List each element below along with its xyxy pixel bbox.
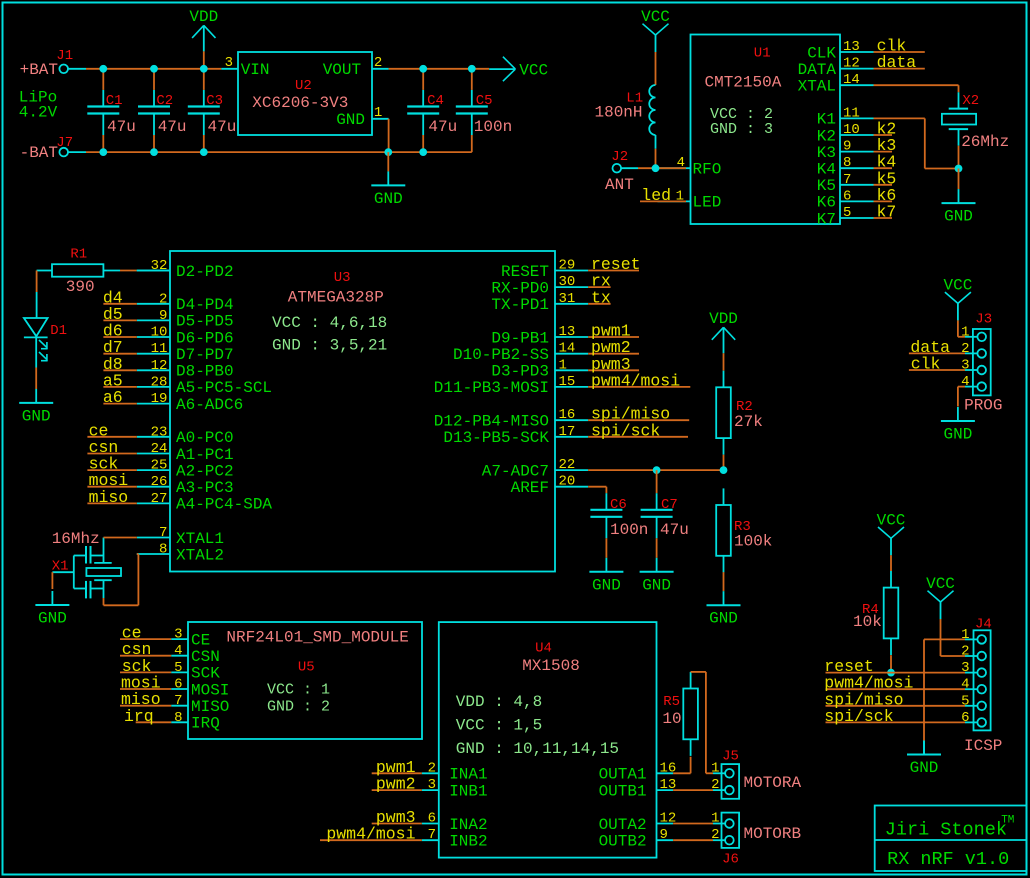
J5 pin 2 xyxy=(725,786,734,795)
svg-text:6: 6 xyxy=(428,811,436,827)
svg-text:ICSP: ICSP xyxy=(964,737,1002,755)
svg-text:13: 13 xyxy=(843,39,860,55)
wire R2 to junction xyxy=(723,455,725,470)
svg-text:VCC : 1: VCC : 1 xyxy=(267,682,330,699)
svg-text:U2: U2 xyxy=(295,78,312,94)
wire label csn xyxy=(120,655,171,657)
capacitor C6 xyxy=(590,509,622,511)
svg-text:11: 11 xyxy=(843,105,860,121)
svg-text:K4: K4 xyxy=(817,161,836,179)
svg-text:3: 3 xyxy=(225,55,233,71)
svg-text:3: 3 xyxy=(961,660,969,676)
connector J2 xyxy=(613,164,622,173)
J4 pin 4 xyxy=(977,685,986,694)
U4 pin 2 INA1 xyxy=(422,772,439,774)
capacitor C3 xyxy=(203,69,205,90)
junction C1 top xyxy=(99,65,107,73)
power VCC above J4 pin2 xyxy=(928,591,941,602)
ground below J3 xyxy=(957,407,959,421)
junction C1 bottom xyxy=(99,148,107,156)
svg-text:X2: X2 xyxy=(962,93,979,109)
power VDD above R2 xyxy=(712,327,724,340)
svg-text:pwm4/mosi: pwm4/mosi xyxy=(591,371,680,390)
junction C2 bottom xyxy=(150,148,158,156)
connector J4 box xyxy=(974,630,991,730)
svg-text:14: 14 xyxy=(843,72,860,88)
svg-text:GND : 3: GND : 3 xyxy=(710,121,773,138)
svg-text:4: 4 xyxy=(961,677,969,693)
wire label spi/sck J4 xyxy=(826,721,966,723)
svg-text:6: 6 xyxy=(174,677,182,693)
junction C4 top xyxy=(419,65,427,73)
svg-text:D9-PB1: D9-PB1 xyxy=(491,329,549,347)
svg-text:10k: 10k xyxy=(853,613,882,631)
wire label spi/sck xyxy=(588,436,688,438)
svg-text:TM: TM xyxy=(1001,815,1014,827)
U3 pin 9 D5-PD5 xyxy=(137,319,170,321)
power VCC above R4 xyxy=(878,527,891,538)
svg-text:data: data xyxy=(877,53,917,72)
svg-text:k7: k7 xyxy=(877,203,897,222)
U3 pin 17 D13-PB5-SCK xyxy=(555,436,588,438)
svg-text:D4-PD4: D4-PD4 xyxy=(176,296,234,314)
wire label a6 xyxy=(103,403,136,405)
svg-text:ATMEGA328P: ATMEGA328P xyxy=(288,289,384,307)
wire label sck xyxy=(87,469,136,471)
svg-text:GND: GND xyxy=(38,610,67,628)
wire label d5 xyxy=(103,319,136,321)
U3 pin 25 A2-PC2 xyxy=(137,469,170,471)
svg-text:K1: K1 xyxy=(817,111,836,129)
U3 pin 26 A3-PC3 xyxy=(137,486,170,488)
svg-text:27k: 27k xyxy=(734,413,763,431)
svg-text:VDD: VDD xyxy=(189,8,218,26)
U5 pin 8 IRQ xyxy=(171,721,188,723)
wire label d8 xyxy=(103,369,136,371)
svg-text:3: 3 xyxy=(174,627,182,643)
svg-text:180nH: 180nH xyxy=(595,103,643,121)
svg-text:C2: C2 xyxy=(156,93,173,109)
svg-text:C3: C3 xyxy=(206,93,223,109)
svg-text:J1: J1 xyxy=(56,48,73,64)
driver U4 box xyxy=(439,622,657,858)
ground below U2 xyxy=(387,152,389,171)
svg-text:47u: 47u xyxy=(107,118,136,136)
svg-text:A2-PC2: A2-PC2 xyxy=(176,462,234,480)
capacitor C7 xyxy=(656,470,658,493)
svg-text:CSN: CSN xyxy=(191,648,220,666)
svg-text:GND: GND xyxy=(374,190,403,208)
svg-text:4: 4 xyxy=(677,155,685,171)
svg-text:1: 1 xyxy=(961,324,969,340)
U4 pin 13 OUTB1 xyxy=(657,789,674,791)
svg-text:30: 30 xyxy=(559,274,576,290)
U3 pin 29 RESET xyxy=(555,270,588,272)
svg-text:spi/sck: spi/sck xyxy=(824,707,893,726)
U4 pin 9 OUTB2 xyxy=(657,839,674,841)
connector J5 box xyxy=(722,764,740,799)
connector J3 box xyxy=(973,329,991,395)
svg-text:U5: U5 xyxy=(298,659,315,675)
U4 pin 3 INB1 xyxy=(422,789,439,791)
svg-text:K6: K6 xyxy=(817,194,836,212)
svg-text:PROG: PROG xyxy=(964,397,1002,415)
svg-text:D10-PB2-SS: D10-PB2-SS xyxy=(453,346,549,364)
power VCC above J3 xyxy=(945,292,958,303)
svg-text:5: 5 xyxy=(843,205,851,221)
title block xyxy=(875,806,1027,872)
svg-text:VCC: VCC xyxy=(519,61,548,79)
ground below R3 xyxy=(723,591,725,605)
wire label d7 xyxy=(103,353,136,355)
wire R1 to D1 xyxy=(36,271,38,293)
wire +BAT rail xyxy=(68,68,86,70)
svg-text:CLK: CLK xyxy=(807,44,836,62)
svg-text:2: 2 xyxy=(961,644,969,660)
wire GND rail bottom xyxy=(68,151,86,153)
J5 pin 1 xyxy=(725,769,734,778)
junction C5 top xyxy=(468,65,476,73)
svg-text:2: 2 xyxy=(428,760,436,776)
net arrow VCC out xyxy=(489,68,515,70)
svg-text:D1: D1 xyxy=(50,323,67,339)
svg-text:3: 3 xyxy=(428,777,436,793)
junction C7 top xyxy=(653,466,661,474)
svg-text:D8-PB0: D8-PB0 xyxy=(176,363,234,381)
U5 pin 7 MISO xyxy=(171,705,188,707)
svg-text:NRF24L01_SMD_MODULE: NRF24L01_SMD_MODULE xyxy=(226,629,408,647)
resistor R5 xyxy=(683,689,698,740)
U3 pin 19 A6-ADC6 xyxy=(137,403,170,405)
U3 pin 10 D6-PD6 xyxy=(137,336,170,338)
svg-text:6: 6 xyxy=(843,188,851,204)
svg-text:RFO: RFO xyxy=(693,161,722,179)
svg-text:LED: LED xyxy=(693,194,722,212)
U1 pin 11 K1 xyxy=(840,117,874,119)
U1 pin 5 K7 xyxy=(840,217,874,219)
svg-text:VCC: VCC xyxy=(877,511,906,529)
svg-text:5: 5 xyxy=(961,693,969,709)
svg-text:2: 2 xyxy=(961,341,969,357)
svg-text:13: 13 xyxy=(559,324,576,340)
J3 pin 2 xyxy=(977,349,986,358)
svg-text:INB2: INB2 xyxy=(449,833,487,851)
svg-text:VDD : 4,8: VDD : 4,8 xyxy=(456,693,542,711)
svg-text:VCC : 4,6,18: VCC : 4,6,18 xyxy=(272,314,387,332)
svg-text:J6: J6 xyxy=(722,852,739,868)
ground below C6 xyxy=(605,558,607,572)
wire label pwm3 xyxy=(372,823,422,825)
U3 pin 23 A0-PC0 xyxy=(137,436,170,438)
svg-text:5: 5 xyxy=(174,660,182,676)
junction J2 L1 RFO xyxy=(652,164,660,172)
svg-text:47u: 47u xyxy=(158,118,187,136)
U5 pin 3 CE xyxy=(171,638,188,640)
U4 pin 6 INA2 xyxy=(422,823,439,825)
wire label clk xyxy=(874,51,925,53)
U1 pin 13 CLK xyxy=(840,51,874,53)
J4 pin 3 xyxy=(977,668,986,677)
svg-text:A0-PC0: A0-PC0 xyxy=(176,429,234,447)
svg-text:GND: GND xyxy=(592,576,621,594)
U4 pin 7 INB2 xyxy=(422,839,439,841)
svg-text:tx: tx xyxy=(591,288,611,307)
svg-text:RESET: RESET xyxy=(501,263,549,281)
svg-text:A5-PC5-SCL: A5-PC5-SCL xyxy=(176,379,272,397)
svg-text:MOTORB: MOTORB xyxy=(744,825,802,843)
svg-text:10: 10 xyxy=(843,122,860,138)
capacitor C4 xyxy=(422,69,424,90)
svg-text:MX1508: MX1508 xyxy=(522,657,580,675)
U4 pin 16 OUTA1 xyxy=(657,772,674,774)
svg-text:D12-PB4-MISO: D12-PB4-MISO xyxy=(434,413,549,431)
U3 pin 28 A5-PC5-SCL xyxy=(137,386,170,388)
junction C3 top xyxy=(200,65,208,73)
power VDD xyxy=(192,25,204,38)
svg-text:100k: 100k xyxy=(734,533,772,551)
svg-text:ANT: ANT xyxy=(605,176,634,194)
svg-text:D3-PD3: D3-PD3 xyxy=(491,363,549,381)
wire OUTA2 to J6 pin1 xyxy=(673,823,713,825)
svg-text:CE: CE xyxy=(191,631,210,649)
U1 pin 7 K5 xyxy=(840,184,874,186)
ground below X1 xyxy=(51,591,53,605)
U4 pin 12 OUTA2 xyxy=(657,823,674,825)
wire label clk J3 xyxy=(909,369,965,371)
svg-text:C6: C6 xyxy=(610,497,627,513)
U1 pin 9 K3 xyxy=(840,151,874,153)
svg-text:spi/sck: spi/sck xyxy=(591,421,660,440)
wire U2 GND to rail xyxy=(388,119,390,152)
inductor L1 xyxy=(649,85,655,135)
U3 pin 30 RX-PD0 xyxy=(555,286,588,288)
svg-text:19: 19 xyxy=(151,391,168,407)
svg-text:27: 27 xyxy=(151,491,168,507)
U5 pin 6 MOSI xyxy=(171,688,188,690)
ground below X2 xyxy=(958,189,960,203)
U1 pin 6 K6 xyxy=(840,200,874,202)
U1 pin 8 K4 xyxy=(840,167,874,169)
svg-text:J5: J5 xyxy=(722,749,739,765)
svg-text:C7: C7 xyxy=(661,497,678,513)
svg-text:VDD: VDD xyxy=(709,310,738,328)
svg-text:led: led xyxy=(641,186,671,205)
U3 pin 32 D2-PD2 xyxy=(137,270,170,272)
svg-text:MISO: MISO xyxy=(191,698,229,716)
wire label irq xyxy=(136,721,172,723)
wire label d4 xyxy=(103,303,136,305)
svg-text:VCC: VCC xyxy=(641,8,670,26)
crystal X2 xyxy=(958,92,960,108)
svg-text:MOTORA: MOTORA xyxy=(744,774,802,792)
U3 pin 12 D8-PB0 xyxy=(137,369,170,371)
wire label pwm3 xyxy=(588,369,639,371)
svg-text:CMT2150A: CMT2150A xyxy=(705,73,782,91)
capacitor C2 xyxy=(153,69,155,90)
svg-text:14: 14 xyxy=(559,341,576,357)
connector J1 xyxy=(59,65,68,74)
svg-text:VCC: VCC xyxy=(926,575,955,593)
svg-text:20: 20 xyxy=(559,474,576,490)
U3 pin 22 A7-ADC7 xyxy=(555,469,588,471)
svg-text:XTAL1: XTAL1 xyxy=(176,530,224,548)
svg-text:23: 23 xyxy=(151,424,168,440)
svg-text:17: 17 xyxy=(559,424,576,440)
wire AREF row xyxy=(588,469,723,471)
wire X1 to XTAL2 xyxy=(103,598,105,605)
svg-text:+BAT: +BAT xyxy=(20,61,58,79)
wire label spi/miso J4 xyxy=(826,705,966,707)
svg-text:INB1: INB1 xyxy=(449,782,487,800)
svg-text:GND : 2: GND : 2 xyxy=(267,699,330,716)
wire label pwm1 xyxy=(372,772,422,774)
svg-text:A4-PC4-SDA: A4-PC4-SDA xyxy=(176,496,272,514)
U3 pin 8 XTAL2 xyxy=(137,553,170,555)
svg-text:15: 15 xyxy=(559,374,576,390)
wire X1 to XTAL1 xyxy=(104,537,137,539)
wire R4 to reset junction xyxy=(890,655,892,672)
svg-text:U1: U1 xyxy=(754,45,771,61)
ground below D1 xyxy=(35,389,37,403)
wire K1 to X2 xyxy=(874,117,925,119)
svg-text:8: 8 xyxy=(174,710,182,726)
U1 pin 1 LED xyxy=(658,200,691,202)
svg-text:RX-PD0: RX-PD0 xyxy=(491,279,549,297)
wire J3 pin4 ground xyxy=(958,386,965,388)
svg-text:28: 28 xyxy=(151,374,168,390)
svg-text:25: 25 xyxy=(151,458,168,474)
junction C3 bottom xyxy=(200,148,208,156)
svg-text:3: 3 xyxy=(961,358,969,374)
svg-text:a6: a6 xyxy=(103,388,123,407)
svg-text:32: 32 xyxy=(151,258,168,274)
svg-text:INA2: INA2 xyxy=(449,816,487,834)
svg-text:29: 29 xyxy=(559,258,576,274)
svg-text:TX-PD1: TX-PD1 xyxy=(491,296,549,314)
svg-text:miso: miso xyxy=(89,488,129,507)
wire OUTB2 to J6 pin2 xyxy=(673,839,713,841)
svg-text:7: 7 xyxy=(843,172,851,188)
wire pin20 to C6 xyxy=(588,486,606,488)
svg-text:4: 4 xyxy=(174,643,182,659)
svg-text:D7-PD7: D7-PD7 xyxy=(176,346,234,364)
U1 pin 12 DATA xyxy=(840,68,874,70)
junction R2 R3 xyxy=(720,466,728,474)
wire label pwm4/mosi J4 xyxy=(826,688,966,690)
wire J4 pin1 to ground xyxy=(924,638,965,640)
wire label k5 xyxy=(874,184,893,186)
svg-text:C5: C5 xyxy=(476,93,493,109)
U5 pin 5 SCK xyxy=(171,671,188,673)
svg-text:1: 1 xyxy=(559,357,567,373)
svg-text:6: 6 xyxy=(961,710,969,726)
svg-text:A1-PC1: A1-PC1 xyxy=(176,446,234,464)
U3 pin 1 D3-PD3 xyxy=(555,369,588,371)
wire label ce xyxy=(120,638,171,640)
svg-text:GND: GND xyxy=(943,426,972,444)
U3 pin 27 A4-PC4-SDA xyxy=(137,502,170,504)
svg-text:26Mhz: 26Mhz xyxy=(961,133,1009,151)
MCU U3 box xyxy=(170,251,555,572)
svg-text:C4: C4 xyxy=(427,93,444,109)
wire J3 pin1 VCC xyxy=(958,336,965,338)
wire label k3 xyxy=(874,151,893,153)
wire L1 to RFO xyxy=(655,135,657,149)
J4 pin 2 xyxy=(977,652,986,661)
svg-text:GND: GND xyxy=(22,407,51,425)
svg-text:VIN: VIN xyxy=(241,61,270,79)
wire R3 to ground xyxy=(723,572,725,591)
svg-text:9: 9 xyxy=(843,139,851,155)
svg-text:IRQ: IRQ xyxy=(191,715,220,733)
svg-text:D13-PB5-SCK: D13-PB5-SCK xyxy=(443,429,549,447)
RF chip U1 box xyxy=(691,35,841,225)
svg-text:U4: U4 xyxy=(535,641,552,657)
wire R1 to U3 pin32 xyxy=(120,270,137,272)
svg-text:GND: GND xyxy=(336,111,365,129)
wire label reset xyxy=(588,270,639,272)
U3 pin 16 D12-PB4-MISO xyxy=(555,419,588,421)
svg-text:RX nRF v1.0: RX nRF v1.0 xyxy=(887,849,1009,870)
wire label pwm2 xyxy=(588,353,639,355)
resistor R1 xyxy=(52,264,103,277)
svg-text:OUTB1: OUTB1 xyxy=(599,782,647,800)
svg-text:C1: C1 xyxy=(106,93,123,109)
svg-text:1: 1 xyxy=(676,188,684,204)
svg-text:OUTA1: OUTA1 xyxy=(599,766,647,784)
wire label data J3 xyxy=(909,352,965,354)
J3 pin 1 xyxy=(977,333,986,342)
svg-text:GND: GND xyxy=(709,610,738,628)
svg-text:D2-PD2: D2-PD2 xyxy=(176,263,234,281)
power VCC above L1 xyxy=(643,24,656,35)
junction C4 bottom xyxy=(419,148,427,156)
J6 pin 2 xyxy=(725,836,734,845)
wire label d6 xyxy=(103,336,136,338)
svg-text:R1: R1 xyxy=(70,247,87,263)
J4 pin 6 xyxy=(977,718,986,727)
svg-text:INA1: INA1 xyxy=(449,766,487,784)
svg-text:11: 11 xyxy=(151,341,168,357)
svg-text:16Mhz: 16Mhz xyxy=(52,530,100,548)
U3 pin 31 TX-PD1 xyxy=(555,303,588,305)
svg-text:47u: 47u xyxy=(208,118,237,136)
resistor R4 xyxy=(884,588,899,639)
svg-text:24: 24 xyxy=(151,441,168,457)
svg-text:D6-PD6: D6-PD6 xyxy=(176,329,234,347)
svg-text:DATA: DATA xyxy=(798,61,837,79)
svg-text:4.2V: 4.2V xyxy=(19,104,58,122)
wire label ce xyxy=(87,436,136,438)
svg-text:Jiri Stonek: Jiri Stonek xyxy=(885,819,1007,840)
wire VOUT rail xyxy=(372,68,389,70)
svg-text:2: 2 xyxy=(159,291,167,307)
J3 pin 3 xyxy=(977,366,986,375)
wire label pwm4/mosi U4 xyxy=(320,839,422,841)
svg-text:7: 7 xyxy=(159,525,167,541)
wire label pwm2 xyxy=(372,789,422,791)
svg-text:MOSI: MOSI xyxy=(191,681,229,699)
svg-text:GND : 3,5,21: GND : 3,5,21 xyxy=(272,337,387,355)
J4 pin 1 xyxy=(977,635,986,644)
wire OUTA1 through R5 to J5 pin1 xyxy=(673,772,691,774)
wire X1 to ground xyxy=(51,572,53,589)
wire D1 to ground xyxy=(35,337,37,367)
wire label tx xyxy=(588,303,610,305)
U5 pin 4 CSN xyxy=(171,655,188,657)
wire label pwm1 xyxy=(588,336,639,338)
U1 pin 10 K2 xyxy=(840,134,874,136)
